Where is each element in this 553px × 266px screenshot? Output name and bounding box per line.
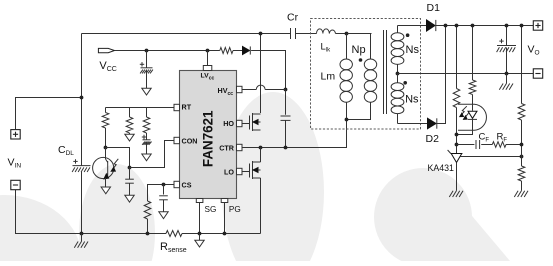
resistor R6 LED series	[469, 80, 476, 95]
winding Ns lower secondary	[397, 74, 399, 83]
wire: HVcc pin with hop over drain riser	[242, 89, 256, 91]
svg-text:D2: D2	[426, 133, 440, 145]
transistor Q2 low-side MOSFET	[242, 171, 250, 173]
inductor Llk leakage	[317, 29, 336, 34]
resistor R5 bias	[453, 89, 460, 108]
wire: bias resistor line	[456, 26, 458, 89]
pin HVcc stub	[237, 86, 243, 92]
svg-text:Cr: Cr	[287, 12, 299, 24]
node: Co bottom junction	[505, 72, 509, 76]
svg-text:PG: PG	[229, 205, 241, 214]
node: HVcc bootstrap junction	[284, 88, 288, 92]
node: SG junction	[198, 232, 202, 236]
capacitor C4 bootstrap	[285, 90, 287, 115]
ground: arrow under opto emitter	[101, 187, 110, 194]
terminal: Vin minus	[11, 180, 20, 189]
light arrow into phototransistor	[112, 159, 118, 170]
node: CON filter junction	[128, 166, 132, 170]
resistor Rsense in bottom rail	[166, 231, 182, 237]
node: primary top junction	[345, 32, 349, 36]
resistor R8 divider lower	[518, 166, 525, 181]
connector: Vcc input pin	[98, 48, 114, 52]
op-amp U1 FAN7621 controller IC body	[180, 71, 237, 199]
wire: CS net	[148, 185, 175, 202]
node: bootstrap cap bottom junction	[284, 146, 288, 150]
wire: CON net to CON pin	[130, 141, 175, 168]
node: CF RF branch junction	[455, 143, 459, 147]
ground: arrow under Vcc cap	[142, 88, 151, 95]
diode: opto LED	[468, 111, 477, 118]
ground: arrow under R2	[125, 134, 134, 141]
ground: power ground under CDL	[81, 234, 83, 242]
terminal: Vin plus	[11, 130, 20, 139]
wire: LVcc branch	[207, 51, 209, 66]
node: divider top junction	[520, 24, 524, 28]
ground: arrow under C1	[142, 154, 151, 161]
resistor R2 to ground arrow	[129, 108, 131, 118]
svg-text:LO: LO	[224, 168, 234, 177]
wire: Vcc rail	[115, 50, 220, 52]
pin SG stub on IC bottom	[196, 199, 203, 203]
node: drain riser top junction	[259, 32, 263, 36]
wire: collector node to CON filter node	[106, 148, 130, 168]
terminal: Vo minus	[533, 69, 542, 78]
winding Np primary	[347, 34, 371, 60]
node: RF junction on divider	[520, 143, 524, 147]
diode D2	[428, 118, 437, 128]
polarity dot Np	[359, 58, 363, 62]
pin CTR stub	[237, 144, 243, 150]
polarity dot Ns upper	[406, 33, 410, 37]
wire: Q2 drain to switching node	[260, 148, 262, 163]
node: Vcc cap junction	[145, 49, 149, 53]
node: bias line top junction	[455, 24, 459, 28]
wire: D2 riser to output rail	[437, 26, 446, 124]
ground: arrow under C3	[159, 212, 168, 219]
svg-text:CS: CS	[182, 181, 192, 190]
svg-text:FAN7621: FAN7621	[201, 110, 216, 167]
node: R4 bottom junction	[146, 232, 150, 236]
transformer dashed boundary box	[311, 19, 421, 130]
wire: LED series line	[472, 26, 474, 81]
light arrows out of opto LED	[461, 106, 467, 115]
pin LVcc stub on IC top	[203, 66, 212, 71]
wire: switching node CTR	[242, 120, 347, 148]
node: CDL bottom junction	[80, 232, 84, 236]
diode D1	[427, 20, 436, 31]
resistor: bootstrap resistor on Vcc rail	[220, 48, 233, 54]
svg-text:HO: HO	[223, 119, 234, 128]
wire: Vin- lead to bottom rail	[16, 190, 167, 234]
svg-text:Np: Np	[352, 44, 366, 56]
wire: Vin+ lead	[16, 98, 82, 130]
svg-text:Ns: Ns	[405, 94, 419, 106]
node: ref junction on divider	[520, 155, 524, 159]
capacitor C1 small electrolytic under R3	[142, 136, 146, 138]
resistor R3 with capacitor to ground	[146, 108, 148, 118]
transistor Q1 high-side MOSFET	[242, 123, 250, 125]
wire: drain riser to top rail	[260, 34, 262, 114]
svg-text:KA431: KA431	[428, 163, 455, 173]
svg-text:Ns: Ns	[406, 44, 420, 56]
wire: top rail from left rail to Cr and transformer	[82, 33, 291, 35]
wire: PG pin to bottom rail	[224, 203, 226, 234]
wire: Ns top to D1	[398, 25, 427, 27]
wire: output plus rail	[436, 25, 533, 27]
wire: RT net horizontal	[106, 107, 175, 109]
ground: under KA431	[449, 191, 453, 197]
svg-text:SG: SG	[205, 205, 217, 214]
node: Co top junction	[505, 24, 509, 28]
capacitor Cr resonant	[290, 28, 292, 39]
winding Ns upper secondary	[397, 26, 399, 33]
node: Q1 source junction	[259, 146, 263, 150]
node: opto collector junction	[104, 146, 108, 150]
node: primary bottom junction	[345, 118, 349, 122]
node: LED cathode junction	[455, 133, 459, 137]
capacitor CF and resistor RF feedback	[457, 144, 475, 146]
wire: LED cathode to KA431 node	[457, 119, 473, 134]
pin HO stub	[237, 120, 243, 126]
wire: bottom rail right of Rsense	[182, 233, 261, 235]
svg-text:CON: CON	[182, 137, 198, 146]
ground: arrow under C2	[125, 195, 134, 202]
opto coupler outline arc	[458, 103, 475, 105]
capacitor C2 on CON node	[129, 168, 131, 180]
ground: arrow under SG	[199, 234, 201, 241]
node: CS cap junction	[162, 183, 166, 187]
svg-text:Lm: Lm	[321, 71, 336, 83]
wire: output return rail from center tap	[398, 73, 534, 75]
transistor Q3 opto phototransistor	[93, 157, 114, 178]
node: LED line top junction	[471, 24, 475, 28]
inductor Lm magnetizing	[346, 34, 348, 60]
ground: secondary ground under output rail	[506, 74, 508, 84]
node: LVcc branch junction	[206, 49, 210, 53]
capacitor C3 on CS node	[163, 185, 165, 195]
node: PG junction	[223, 232, 227, 236]
node: Vin+ junction on left rail	[80, 96, 84, 100]
resistor R4 from CS to bottom rail	[144, 201, 151, 219]
node: D2 junction on output rail	[444, 24, 448, 28]
wire: Q2 source to bottom rail	[260, 178, 262, 234]
wire: SG pin to bottom rail	[199, 203, 201, 234]
shunt regulator KA431	[451, 153, 463, 155]
diode: bootstrap diode	[243, 46, 250, 54]
wire: resistor to diode	[233, 50, 243, 52]
pin LO stub	[237, 168, 243, 174]
wire: diode to HVcc node	[251, 51, 285, 90]
node: secondary center tap	[396, 72, 400, 76]
resistor R1 on RT net	[105, 108, 107, 113]
pin CON stub	[174, 137, 180, 143]
ground: under divider	[514, 191, 518, 197]
pin CS stub	[174, 181, 180, 187]
capacitor Co output electrolytic	[506, 26, 508, 46]
capacitor CDL delay cap on left rail	[73, 160, 77, 162]
resistor R7 divider upper	[518, 104, 525, 121]
wire: KA431 ref line	[461, 156, 522, 158]
polarity dot Ns lower	[403, 81, 407, 85]
pin PG stub on IC bottom	[221, 199, 228, 203]
transformer core	[383, 30, 385, 114]
terminal: Vo plus	[533, 21, 542, 30]
pin RT stub	[174, 104, 180, 110]
svg-text:RT: RT	[182, 103, 192, 112]
wire: left vertical rail	[81, 34, 83, 166]
svg-text:D1: D1	[427, 2, 441, 14]
wire: Ns bottom to D2	[398, 123, 428, 125]
svg-text:CTR: CTR	[219, 144, 235, 153]
wire: divider line from output rail	[521, 26, 523, 104]
capacitor: Vcc bypass electrolytic	[146, 51, 148, 68]
